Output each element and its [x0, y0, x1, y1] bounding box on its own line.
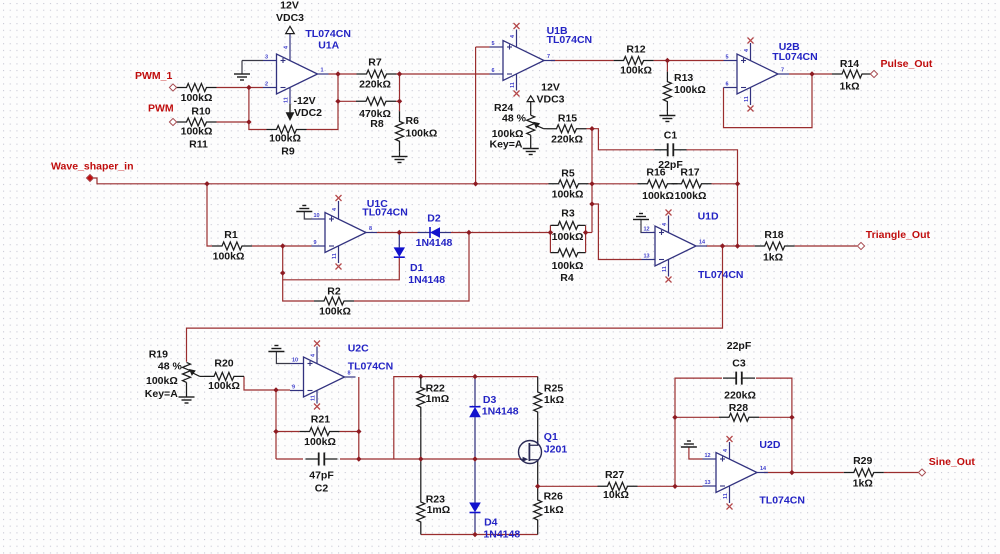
wire: [724, 74, 813, 128]
svg-text:VDC2: VDC2: [294, 107, 322, 119]
svg-text:1N4148: 1N4148: [483, 529, 520, 541]
diode D4: [469, 503, 520, 541]
op-amp U2B: [724, 54, 790, 94]
node PWM_1: [169, 84, 176, 91]
x mark (unconnected pin): [314, 341, 320, 347]
svg-text:U1D: U1D: [698, 210, 719, 222]
svg-text:Q1: Q1: [544, 431, 558, 443]
svg-text:VDC3: VDC3: [537, 93, 565, 105]
junction: [273, 387, 278, 392]
wire: [421, 376, 538, 378]
svg-text:R26: R26: [544, 490, 563, 502]
resistor R28: [719, 389, 759, 421]
wire: [94, 178, 549, 184]
junction: [472, 456, 477, 461]
wire: [589, 183, 638, 185]
svg-text:TL074CN: TL074CN: [772, 51, 818, 63]
svg-text:12: 12: [705, 453, 711, 459]
junction: [583, 230, 588, 235]
svg-text:R7: R7: [368, 56, 382, 68]
svg-text:VDC3: VDC3: [276, 12, 304, 24]
ground: [681, 441, 697, 447]
svg-text:Key=A: Key=A: [490, 139, 523, 151]
svg-text:100kΩ: 100kΩ: [181, 126, 213, 138]
pin 11 power stub: [338, 246, 340, 263]
svg-text:R25: R25: [544, 383, 563, 395]
wire: [474, 417, 476, 459]
wire: [276, 352, 290, 364]
wire: [217, 121, 249, 123]
resistor R3: [550, 207, 585, 243]
resistor R20: [204, 358, 244, 392]
wire: [307, 74, 339, 130]
svg-text:100kΩ: 100kΩ: [269, 133, 301, 145]
svg-text:J201: J201: [544, 444, 568, 456]
svg-text:7: 7: [547, 54, 550, 60]
junction: [280, 243, 285, 248]
capacitor C3: [723, 340, 755, 385]
wire: [537, 530, 539, 535]
node PWM: [169, 118, 176, 125]
junction: [204, 181, 209, 186]
wire: [884, 472, 918, 474]
svg-text:100kΩ: 100kΩ: [552, 231, 584, 243]
svg-text:1kΩ: 1kΩ: [763, 252, 783, 264]
svg-text:100kΩ: 100kΩ: [304, 436, 336, 448]
wire: [358, 377, 360, 459]
wire: [551, 60, 614, 62]
wire: [689, 447, 703, 459]
wire: [397, 73, 490, 75]
pin 11 power stub: [516, 74, 518, 91]
ground: [268, 346, 284, 352]
wire: [789, 73, 832, 75]
node Triangle_Out: [857, 242, 864, 249]
diode D2: [416, 213, 453, 250]
resistor R18: [755, 229, 795, 264]
x mark (unconnected pin): [666, 210, 672, 216]
pin 4 power stub: [338, 201, 340, 219]
junction: [273, 429, 278, 434]
svg-text:14: 14: [699, 240, 706, 246]
wire: [586, 232, 592, 234]
op-amp U2D: [703, 453, 769, 493]
wire: [283, 257, 399, 280]
wire: [340, 458, 359, 460]
pin 11 power stub: [729, 486, 731, 503]
power 12V VDC3 (top): [276, 0, 304, 34]
svg-text:TL074CN: TL074CN: [759, 495, 805, 507]
svg-text:11: 11: [744, 96, 750, 102]
svg-text:1: 1: [321, 68, 324, 74]
junction: [397, 71, 402, 76]
ground: [179, 397, 195, 403]
wire: [544, 128, 547, 130]
wire: [244, 376, 276, 390]
ground: [523, 149, 539, 155]
svg-text:9: 9: [314, 240, 317, 246]
wire: [276, 389, 290, 391]
diode D3: [469, 394, 519, 418]
svg-text:R17: R17: [680, 166, 699, 178]
svg-text:1mΩ: 1mΩ: [427, 504, 451, 516]
wire: [756, 378, 792, 472]
wire: [207, 184, 212, 246]
junction: [280, 270, 285, 275]
resistor R16: [638, 166, 678, 202]
resistor R2: [314, 286, 354, 318]
pin 11 power stub: [316, 390, 318, 403]
junction: [789, 470, 794, 475]
junction: [672, 415, 677, 420]
svg-text:R9: R9: [281, 146, 295, 158]
junction: [335, 71, 340, 76]
op-amp U1D: [642, 226, 708, 266]
wire: [420, 532, 422, 535]
wire: [283, 246, 314, 301]
junction: [418, 456, 423, 461]
wire: [476, 46, 490, 48]
svg-text:220kΩ: 220kΩ: [359, 79, 391, 91]
wire: [591, 129, 593, 233]
svg-text:TL074CN: TL074CN: [348, 360, 394, 372]
junction: [246, 119, 251, 124]
wire: [675, 485, 703, 487]
svg-text:1kΩ: 1kΩ: [544, 504, 564, 516]
junction: [809, 71, 814, 76]
svg-text:8: 8: [369, 226, 372, 232]
wire: [475, 47, 477, 184]
ground: [659, 116, 675, 122]
svg-text:11: 11: [284, 97, 290, 103]
svg-text:14: 14: [760, 466, 767, 472]
op-amp U1C: [312, 213, 378, 253]
svg-text:R8: R8: [370, 118, 384, 130]
junction: [789, 415, 794, 420]
resistor R8: [356, 97, 396, 130]
svg-text:Sine_Out: Sine_Out: [929, 456, 976, 468]
svg-text:100kΩ: 100kΩ: [552, 188, 584, 200]
ground: [296, 206, 312, 212]
transistor Q1: [519, 431, 568, 464]
svg-text:12: 12: [644, 227, 650, 233]
wire: [275, 390, 277, 459]
svg-text:R14: R14: [840, 58, 859, 70]
x mark (unconnected pin): [748, 106, 754, 112]
svg-text:100kΩ: 100kΩ: [181, 92, 213, 104]
junction: [672, 484, 677, 489]
resistor R6: [396, 111, 438, 151]
wire: [359, 377, 421, 459]
wire: [537, 422, 539, 445]
svg-text:TL074CN: TL074CN: [698, 269, 744, 281]
wire: [638, 485, 676, 487]
junction: [472, 374, 477, 379]
x mark (unconnected pin): [727, 436, 733, 442]
resistor R4: [550, 249, 585, 284]
wire: [394, 458, 520, 460]
x mark (unconnected pin): [336, 195, 342, 201]
wire: [338, 100, 356, 102]
svg-text:Key=A: Key=A: [145, 388, 178, 400]
wire: [654, 60, 724, 62]
wire: [549, 225, 551, 252]
svg-text:1kΩ: 1kΩ: [544, 394, 564, 406]
wire: [398, 233, 400, 248]
x mark (unconnected pin): [514, 23, 520, 29]
svg-text:R28: R28: [729, 402, 748, 414]
junction: [548, 230, 553, 235]
svg-text:C2: C2: [315, 483, 329, 495]
node Pulse_Out: [870, 70, 877, 77]
power -12V VDC2: [286, 95, 323, 121]
wire: [587, 128, 593, 130]
svg-text:100kΩ: 100kΩ: [620, 65, 652, 77]
svg-text:1kΩ: 1kΩ: [839, 81, 859, 93]
resistor R26: [534, 490, 564, 530]
svg-text:C1: C1: [664, 130, 678, 142]
pin 11 power stub: [750, 87, 752, 105]
junction: [589, 126, 594, 131]
svg-text:1N4148: 1N4148: [482, 406, 519, 418]
svg-text:6: 6: [492, 68, 495, 74]
wire: [377, 232, 418, 234]
wire: [399, 74, 401, 111]
junction: [397, 230, 402, 235]
potentiometer R19: [145, 348, 200, 400]
svg-text:D2: D2: [427, 213, 441, 225]
junction: [735, 181, 740, 186]
resistor R9: [267, 126, 307, 158]
wire: [252, 245, 312, 247]
junction: [720, 243, 725, 248]
junction: [735, 243, 740, 248]
svg-text:R21: R21: [311, 413, 330, 425]
resistor R5: [549, 167, 589, 200]
wire: [396, 100, 400, 102]
wire: [354, 233, 469, 302]
svg-text:6: 6: [726, 82, 729, 88]
svg-text:R19: R19: [149, 348, 168, 360]
wire: [666, 61, 668, 72]
svg-text:3: 3: [265, 55, 268, 61]
svg-text:11: 11: [332, 253, 338, 259]
junction: [246, 85, 251, 90]
wire: [537, 460, 539, 487]
wire: [640, 220, 643, 233]
svg-text:100kΩ: 100kΩ: [406, 127, 438, 139]
svg-text:47pF: 47pF: [309, 469, 334, 481]
svg-text:11: 11: [662, 266, 668, 272]
wire: [592, 204, 642, 260]
svg-text:100kΩ: 100kΩ: [319, 306, 351, 318]
junction: [472, 532, 477, 537]
wire: [538, 485, 598, 487]
wire: [537, 486, 539, 490]
resistor R27: [598, 469, 638, 501]
svg-text:D1: D1: [410, 262, 424, 274]
wire: [537, 377, 539, 382]
pin 4 power stub: [729, 442, 731, 459]
wire: [706, 245, 755, 247]
wire: [187, 246, 723, 362]
wire: [451, 232, 551, 234]
wire: [200, 375, 204, 377]
resistor R10: [177, 84, 217, 118]
svg-text:22pF: 22pF: [658, 159, 683, 171]
svg-text:R29: R29: [853, 455, 872, 467]
node Wave_shaper_in: [86, 174, 93, 181]
junction: [418, 374, 423, 379]
wire: [592, 129, 655, 150]
svg-text:100kΩ: 100kΩ: [146, 375, 178, 387]
svg-text:Wave_shaper_in: Wave_shaper_in: [51, 161, 133, 173]
svg-text:10kΩ: 10kΩ: [603, 489, 629, 501]
svg-text:D4: D4: [484, 517, 498, 529]
resistor R14: [832, 58, 872, 93]
svg-text:R20: R20: [214, 358, 233, 370]
svg-text:1N4148: 1N4148: [416, 237, 453, 249]
svg-text:R13: R13: [674, 72, 693, 84]
pin 4 power stub: [668, 216, 670, 233]
junction: [356, 429, 361, 434]
wire: [420, 459, 422, 492]
svg-text:12V: 12V: [541, 82, 560, 94]
op-amp U2C: [290, 357, 356, 397]
svg-text:R15: R15: [558, 113, 577, 125]
diode D1: [394, 247, 446, 286]
pin 4 power stub: [516, 30, 518, 48]
junction: [466, 230, 471, 235]
svg-text:12V: 12V: [280, 0, 299, 12]
resistor R25: [534, 382, 564, 422]
svg-text:5: 5: [492, 41, 495, 47]
svg-text:1N4148: 1N4148: [408, 274, 445, 286]
svg-text:TL074CN: TL074CN: [547, 34, 593, 46]
resistor R17: [672, 166, 712, 202]
svg-text:13: 13: [705, 480, 711, 486]
x mark (unconnected pin): [727, 504, 733, 510]
junction: [473, 181, 478, 186]
svg-text:11: 11: [723, 493, 729, 499]
pin 11 power stub: [668, 259, 670, 276]
wire: [474, 459, 476, 503]
resistor R13: [663, 72, 705, 112]
potentiometer R24: [490, 102, 544, 151]
capacitor C2: [306, 453, 338, 495]
svg-text:2: 2: [265, 82, 268, 88]
svg-text:D3: D3: [483, 394, 497, 406]
resistor R7: [357, 56, 397, 90]
wire: [340, 431, 359, 433]
svg-text:5: 5: [726, 55, 729, 61]
svg-text:PWM: PWM: [148, 103, 174, 115]
svg-text:U1A: U1A: [318, 40, 339, 52]
svg-text:R5: R5: [561, 167, 575, 179]
wire: [712, 183, 738, 185]
svg-text:100kΩ: 100kΩ: [213, 251, 245, 263]
wire: [795, 245, 857, 247]
svg-text:R10: R10: [191, 106, 210, 118]
wire: [249, 88, 267, 130]
svg-text:R3: R3: [561, 207, 575, 219]
junction: [665, 58, 670, 63]
junction: [589, 201, 594, 206]
svg-text:PWM_1: PWM_1: [135, 70, 173, 82]
resistor R1: [212, 229, 252, 263]
wire: [329, 73, 357, 75]
svg-text:Pulse_Out: Pulse_Out: [881, 58, 933, 70]
junction: [535, 484, 540, 489]
junction: [356, 456, 361, 461]
wire: [759, 416, 792, 418]
x mark (unconnected pin): [666, 277, 672, 283]
svg-text:100kΩ: 100kΩ: [675, 190, 707, 202]
svg-text:100kΩ: 100kΩ: [642, 190, 674, 202]
wire: [675, 378, 722, 486]
svg-text:R12: R12: [626, 43, 645, 55]
wire: [276, 458, 303, 460]
svg-text:9: 9: [292, 385, 295, 391]
svg-text:7: 7: [781, 68, 784, 74]
wire: [764, 472, 844, 474]
svg-text:-12V: -12V: [294, 95, 316, 107]
ground: [633, 214, 649, 220]
wire: [241, 61, 243, 74]
svg-text:TL074CN: TL074CN: [305, 28, 351, 40]
svg-text:R18: R18: [764, 229, 783, 241]
svg-text:100kΩ: 100kΩ: [208, 380, 240, 392]
svg-text:1kΩ: 1kΩ: [853, 478, 873, 490]
svg-text:100kΩ: 100kΩ: [674, 84, 706, 96]
wire: [675, 416, 719, 418]
resistor R22: [417, 377, 449, 417]
svg-text:R6: R6: [406, 115, 420, 127]
capacitor C1: [655, 130, 687, 171]
wire: [399, 151, 401, 156]
svg-text:220kΩ: 220kΩ: [551, 133, 583, 145]
node Sine_Out: [918, 469, 925, 476]
svg-text:TL074CN: TL074CN: [362, 207, 408, 219]
wire: [242, 60, 263, 62]
ground: [392, 157, 408, 163]
resistor R21: [300, 413, 340, 448]
junction: [335, 99, 340, 104]
power 12V VDC3 (R24): [527, 82, 565, 106]
svg-text:100kΩ: 100kΩ: [552, 260, 584, 272]
pin 4 power stub: [289, 34, 291, 61]
x mark (unconnected pin): [748, 38, 754, 44]
pin 4 power stub: [316, 347, 318, 364]
svg-text:10: 10: [292, 358, 298, 364]
svg-text:11: 11: [510, 82, 516, 88]
junction: [589, 181, 594, 186]
pin 4 power stub: [750, 43, 752, 61]
svg-text:R2: R2: [327, 286, 341, 298]
wire: [666, 112, 668, 116]
svg-text:U2D: U2D: [759, 439, 780, 451]
svg-text:22pF: 22pF: [727, 340, 752, 352]
svg-text:R4: R4: [560, 272, 574, 284]
svg-text:10: 10: [314, 213, 320, 219]
junction: [397, 99, 402, 104]
x mark (unconnected pin): [314, 404, 320, 410]
svg-text:1mΩ: 1mΩ: [426, 393, 450, 405]
wire: [474, 377, 476, 407]
wire: [217, 87, 264, 89]
resistor R12: [614, 43, 654, 76]
svg-text:11: 11: [311, 395, 317, 401]
